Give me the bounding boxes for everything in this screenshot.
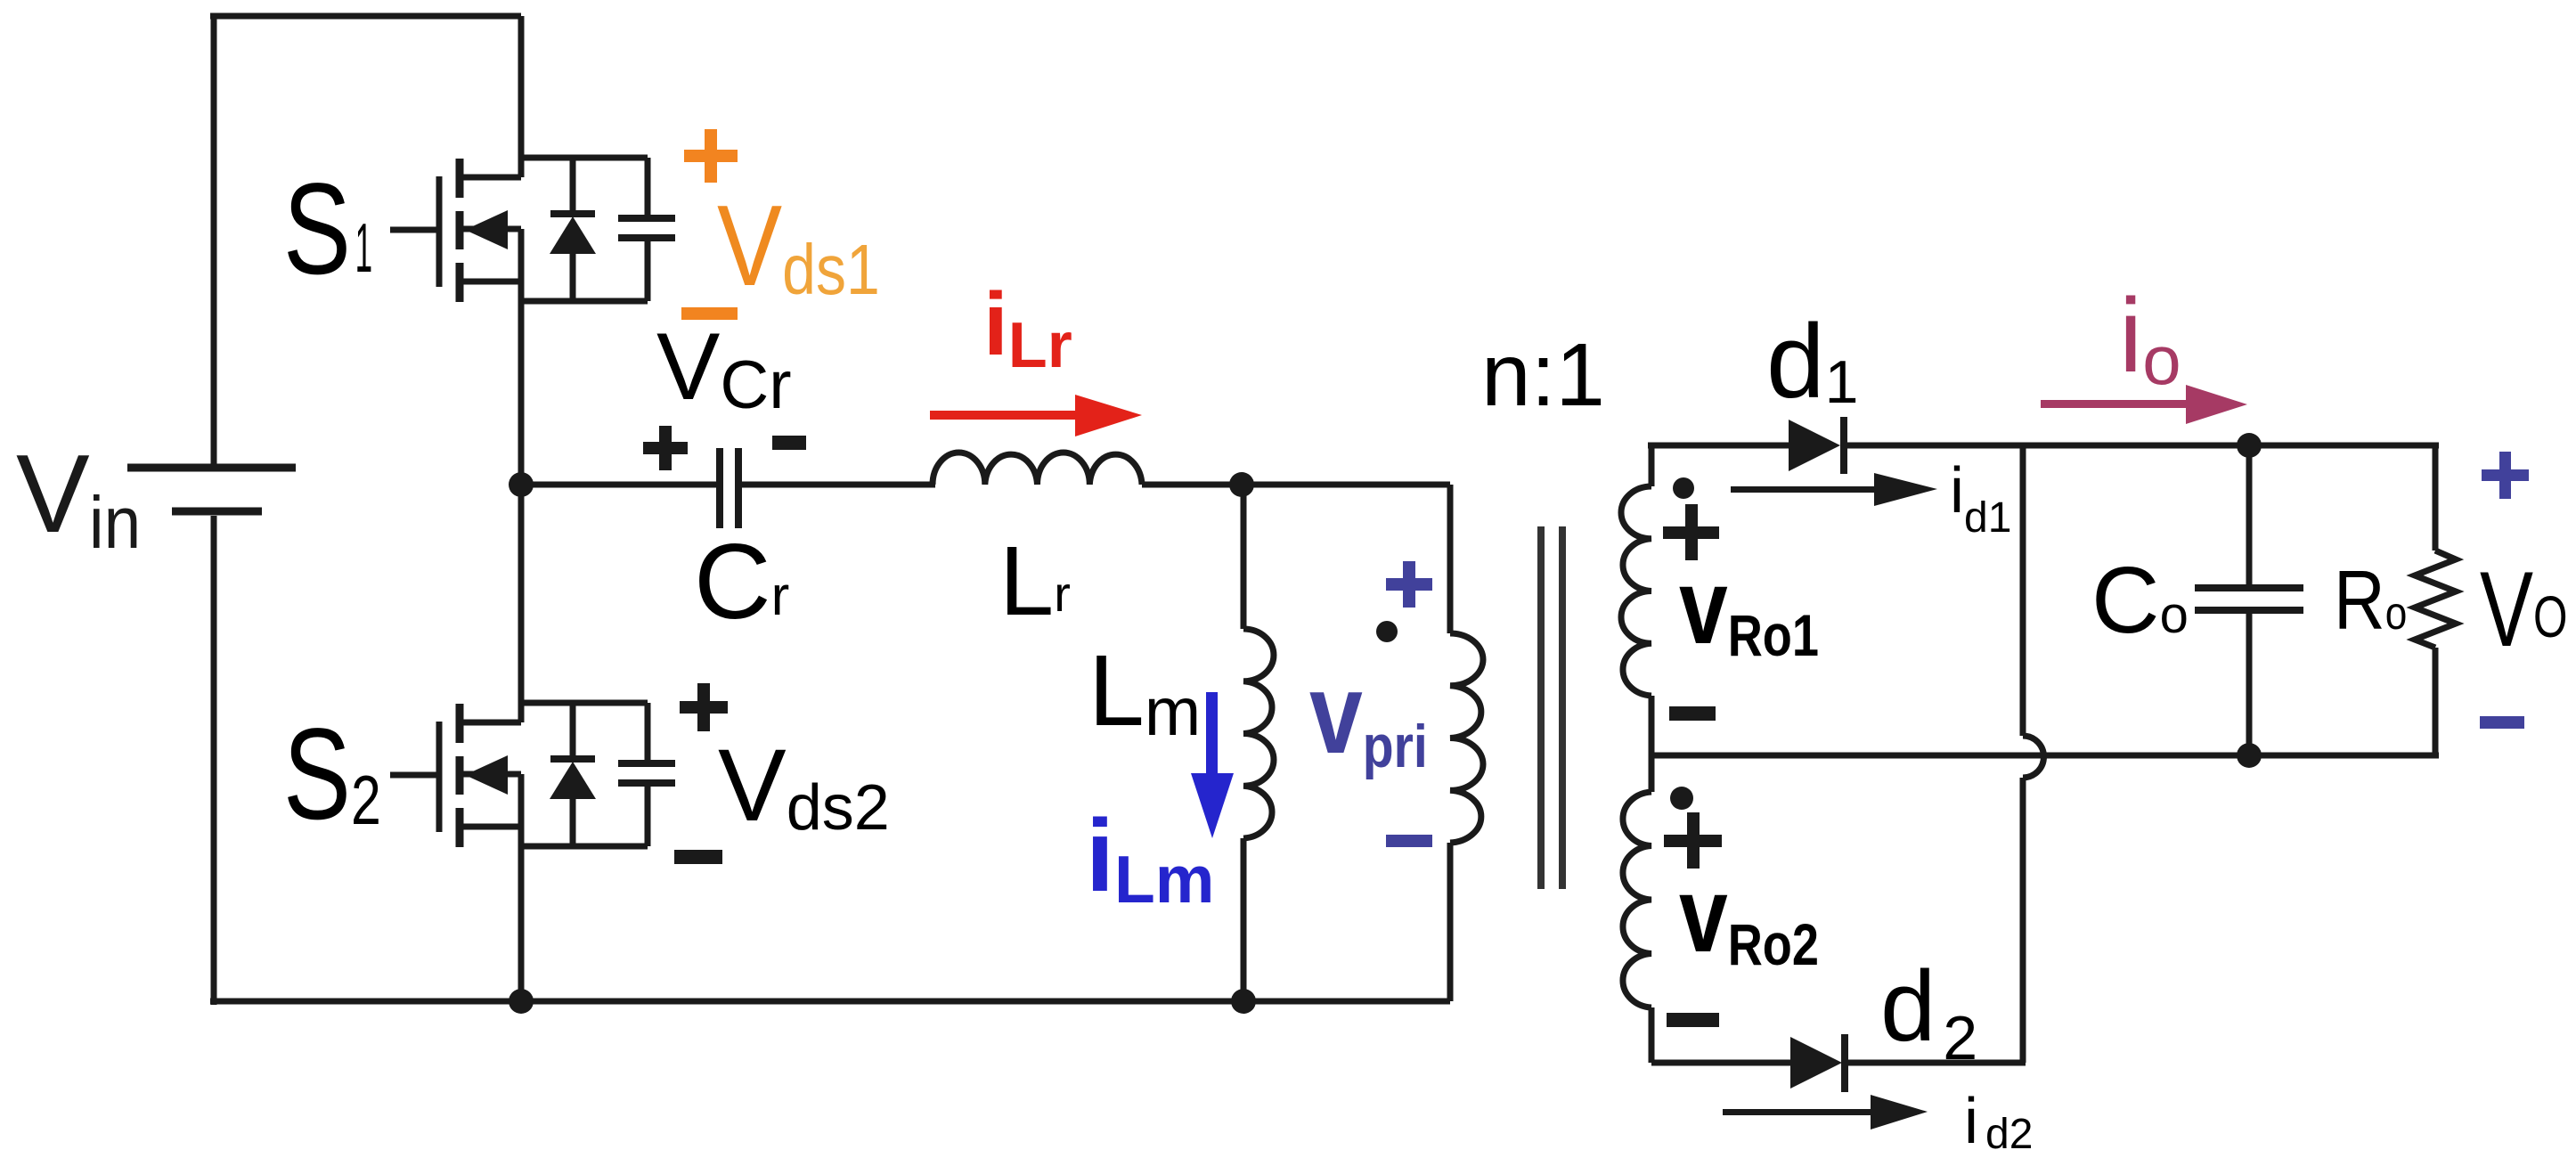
dot secondary 1 polarity — [1673, 477, 1694, 499]
transistor S1 — [390, 158, 521, 304]
wire secondary top to d1 — [1648, 443, 1790, 449]
label + of Vds2 — [680, 683, 728, 731]
wire secondary bottom to d2 — [1651, 1060, 1792, 1066]
dot primary polarity — [1376, 621, 1398, 642]
wire half-bridge rail top segment — [518, 16, 525, 160]
label minus of Vo — [2480, 716, 2524, 729]
arrow io — [2041, 385, 2247, 424]
wire rectifier bus vertical with hop — [2023, 445, 2044, 1063]
label minus of vRo2 — [1667, 1013, 1719, 1027]
arrow iLr — [930, 395, 1142, 436]
wire Lr to node A — [1142, 482, 1243, 488]
node A Lm top — [1229, 472, 1254, 497]
wire d1 to output plus — [1844, 443, 2439, 449]
capacitor S2 snubber — [618, 703, 675, 846]
label + of vpri — [1386, 561, 1432, 608]
wire Cr to Lr — [741, 482, 935, 488]
label + of VCr — [643, 426, 688, 470]
winding primary — [1450, 485, 1483, 1001]
label + of vRo1 — [1663, 504, 1719, 560]
wire S2 box bottom — [521, 844, 648, 850]
arrow id1 — [1731, 473, 1937, 506]
inductor Lr — [933, 453, 1142, 485]
diode d1 — [1789, 417, 1844, 474]
label minus of VCr — [772, 436, 806, 450]
dot secondary 2 polarity — [1670, 787, 1693, 810]
label minus of vpri — [1386, 835, 1432, 847]
winding secondary 2 — [1623, 755, 1651, 1063]
wire S1 box bottom — [521, 298, 648, 305]
diode S2 body diode — [550, 703, 596, 846]
arrow id2 — [1723, 1095, 1928, 1130]
diode d2 — [1790, 1034, 1845, 1092]
node output plus — [2237, 433, 2262, 458]
winding secondary 1 — [1621, 445, 1651, 755]
capacitor Cr — [720, 448, 738, 528]
node output minus — [2237, 743, 2262, 768]
svg-text:in: in — [89, 481, 141, 564]
battery Vin — [127, 468, 296, 511]
wire top rail — [210, 13, 521, 20]
arrow iLm — [1191, 692, 1234, 838]
wire left rail lower — [211, 516, 217, 1005]
svg-text:V: V — [16, 433, 90, 556]
capacitor Co — [2195, 445, 2303, 755]
transistor S2 — [390, 703, 521, 849]
wire S1 box top — [521, 155, 648, 161]
wire d2 to rectifier bus — [1842, 1060, 2026, 1066]
wire node A to primary winding — [1242, 482, 1450, 488]
label minus of Vds2 — [674, 850, 722, 864]
node B Lm bottom — [1231, 989, 1256, 1014]
node half-bridge midpoint — [509, 472, 534, 497]
label minus of Vds1 — [681, 307, 738, 320]
wire half-bridge rail bottom segment — [518, 849, 525, 1001]
wire left rail upper — [211, 13, 217, 464]
diode S1 body diode — [550, 158, 596, 301]
label + of Vds1 — [684, 129, 738, 183]
label + of Vo — [2482, 452, 2529, 499]
label minus of vRo1 — [1669, 706, 1716, 721]
capacitor S1 snubber — [618, 158, 675, 301]
wire half-bridge rail middle segment — [518, 304, 525, 705]
wire bottom rail — [210, 999, 1450, 1005]
transformer core — [1541, 526, 1562, 889]
label + of vRo2 — [1664, 812, 1722, 869]
wire midpoint to Cr — [521, 482, 717, 488]
wire center tap to output minus — [1651, 753, 2439, 759]
svg-text:n:1: n:1 — [1481, 325, 1605, 425]
node half-bridge bottom — [509, 989, 534, 1014]
resistor Ro — [2415, 445, 2456, 755]
wire S2 box top — [521, 700, 648, 706]
inductor Lm — [1243, 485, 1274, 1001]
